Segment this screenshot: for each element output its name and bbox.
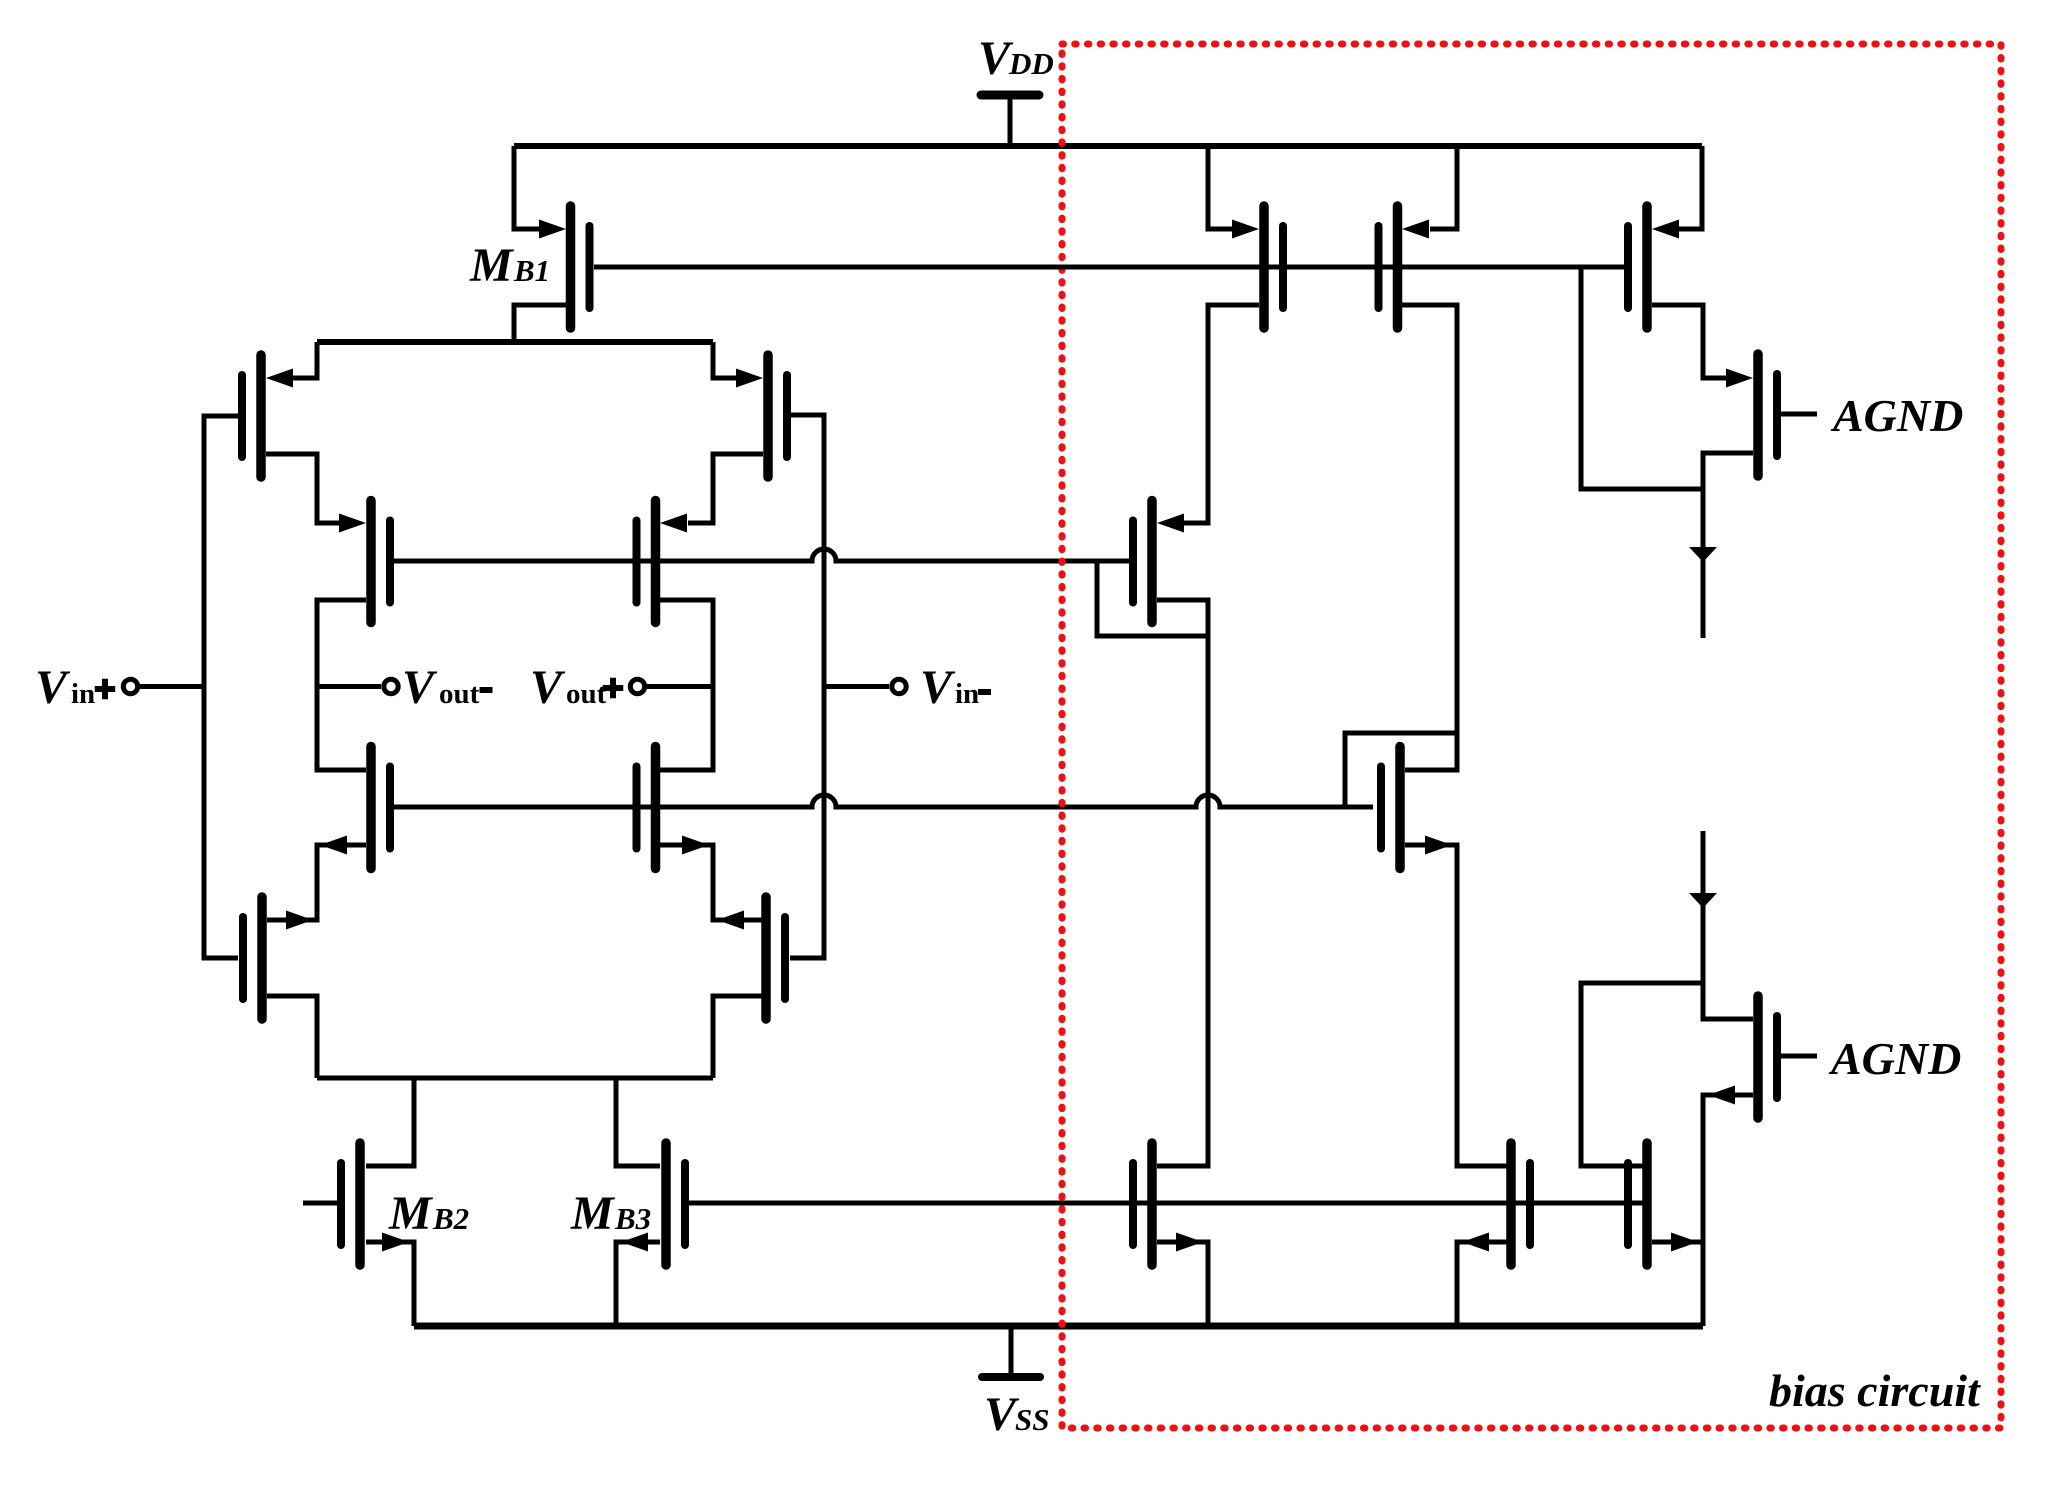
node Vout- terminal xyxy=(317,679,398,693)
node Vin+ terminal xyxy=(123,679,204,693)
wire cross link to BN4 drain xyxy=(1581,983,1703,1166)
wire BP2 drain from rail xyxy=(1430,146,1457,229)
wire M2 drain to M4 xyxy=(688,454,763,523)
Vin- label xyxy=(920,661,991,714)
wire BN2 source to VSS rail xyxy=(1157,1242,1208,1326)
transistor M2 (PMOS input, Vin-) xyxy=(736,355,787,477)
wire row3 gate line with hops xyxy=(394,795,1373,807)
wire AGP gate stub xyxy=(1781,412,1817,417)
transistor BP2 (bias PMOS mirror) xyxy=(1379,206,1430,328)
wire BN4 source to AGN column xyxy=(1652,1240,1703,1245)
svg-text:out: out xyxy=(439,678,480,710)
MB3 label xyxy=(570,1187,651,1240)
transistor M6 (NMOS cascode right) xyxy=(637,747,710,869)
svg-text:bias circuit: bias circuit xyxy=(1769,1365,1981,1416)
svg-text:DD: DD xyxy=(1008,46,1054,81)
transistor MB2 (NMOS tail source) xyxy=(341,1143,409,1265)
svg-text:SS: SS xyxy=(1015,1402,1049,1437)
svg-text:B3: B3 xyxy=(614,1201,651,1236)
wire M1 source drop from mid rail xyxy=(292,342,317,378)
Vout+ label xyxy=(530,661,623,714)
transistor BN2 (bias NMOS bottom left) xyxy=(1133,1143,1203,1265)
bias circuit boundary (red dotted box) xyxy=(1062,44,2001,1428)
svg-text:B2: B2 xyxy=(432,1201,469,1236)
wire M3 drain to Vout- node and M5 xyxy=(317,600,366,770)
svg-text:V: V xyxy=(530,661,566,714)
node Vin- terminal xyxy=(824,679,906,693)
wire BN3 source to VSS rail xyxy=(1457,1242,1507,1326)
wire AGN gate stub xyxy=(1781,1054,1817,1059)
svg-text:V: V xyxy=(35,661,71,714)
transistor M5 (NMOS cascode left) xyxy=(320,747,390,869)
wire MB2 gate stub xyxy=(303,1201,338,1206)
transistor BP1 (bias PMOS mirror) xyxy=(1232,206,1283,328)
svg-text:M: M xyxy=(469,239,515,292)
transistor M8 (NMOS input, Vin-) xyxy=(717,897,785,1019)
Vin+ label xyxy=(35,661,115,714)
wire M6 source to M8 drain xyxy=(660,845,763,920)
svg-text:in: in xyxy=(71,678,95,710)
wire mid rail (sources of M1/M2) xyxy=(317,339,713,345)
wire M1 drain to M3 xyxy=(266,454,341,523)
transistor BP3 (bias PMOS diode) xyxy=(1133,501,1184,623)
transistor M7 (NMOS input, Vin+) xyxy=(243,897,313,1019)
wire MB1 source to mid rail xyxy=(514,305,566,342)
svg-text:V: V xyxy=(920,661,956,714)
wire row2 gate to BP3 source hook xyxy=(1097,561,1208,636)
svg-text:out: out xyxy=(566,678,607,710)
transistor M3 (PMOS cascode left) xyxy=(339,501,390,623)
AGND label upper xyxy=(1830,390,1963,441)
svg-text:in: in xyxy=(955,678,979,710)
current source arrow lower xyxy=(1689,831,1753,1019)
wire M2 gate / Vin- gate line xyxy=(789,415,824,958)
wire Vin+ gate line xyxy=(204,416,240,958)
transistor AGP (AGND PMOS) xyxy=(1726,354,1777,476)
svg-text:V: V xyxy=(402,661,438,714)
wire MB2 source to VSS rail xyxy=(366,1242,414,1326)
wire row2 gate line with hop over Vin- line xyxy=(394,549,1129,561)
svg-text:AGND: AGND xyxy=(1828,1033,1961,1084)
transistor BN4 (bias NMOS bottom right) xyxy=(1628,1143,1698,1265)
wire BP1 source down to BP3 xyxy=(1184,305,1259,523)
wire bottom NMOS gate line xyxy=(687,1201,1645,1206)
transistor MB1 (PMOS current mirror master) xyxy=(539,206,590,328)
transistor BN1 (bias NMOS) xyxy=(1381,747,1452,869)
wire AGP source to bias node xyxy=(1703,453,1753,489)
transistor AGN (AGND NMOS) xyxy=(1708,996,1777,1118)
wire AGN source to VSS rail xyxy=(1703,1095,1753,1326)
wire BN1 source down to BN3 drain xyxy=(1405,845,1507,1166)
wire M8 source to tail bus xyxy=(713,996,763,1078)
svg-text:AGND: AGND xyxy=(1830,390,1963,441)
transistor BP4 (bias PMOS far right) xyxy=(1628,206,1679,328)
wire M4 drain to Vout+ node and M6 xyxy=(660,600,713,770)
VDD power symbol xyxy=(981,95,1039,146)
wire BP2 source down to BN1 drain xyxy=(1402,305,1457,770)
wire MB1 drain from VDD rail xyxy=(514,146,541,229)
wire VDD top rail xyxy=(514,143,1702,149)
wire M7 source to tail bus xyxy=(267,996,317,1078)
VSS label xyxy=(984,1388,1049,1441)
wire BP4 drain from rail corner xyxy=(1679,146,1702,229)
wire BP4 source to AGND PMOS drain xyxy=(1652,305,1729,378)
wire MB3 drain drop xyxy=(616,1078,660,1166)
wire VSS bottom rail xyxy=(414,1323,1703,1330)
svg-text:M: M xyxy=(388,1187,434,1240)
MB2 label xyxy=(388,1187,469,1240)
wire MB3 source to VSS rail xyxy=(616,1242,660,1326)
wire BP3 source down to BN2 drain (hop crossed by row3 line) xyxy=(1157,600,1208,1166)
current source arrow upper xyxy=(1689,489,1717,638)
wire tail bus xyxy=(317,1076,713,1081)
wire BN1 gate-drain loop xyxy=(1345,733,1457,807)
wire PMOS bias gate line xyxy=(594,265,1626,270)
wire MB2 drain drop xyxy=(366,1078,414,1166)
transistor M1 (PMOS input, Vin+) xyxy=(242,355,293,477)
bias circuit label xyxy=(1769,1365,1981,1416)
Vout- label xyxy=(402,661,493,714)
wire bias gate tie-down xyxy=(1581,267,1703,489)
wire M2 source drop from mid rail xyxy=(713,342,737,378)
svg-text:B1: B1 xyxy=(513,253,550,288)
wire M5 source to M7 drain xyxy=(267,845,366,920)
VSS power symbol xyxy=(982,1326,1040,1377)
transistor MB3 (NMOS tail source) xyxy=(621,1143,685,1265)
svg-text:M: M xyxy=(570,1187,616,1240)
transistor M4 (PMOS cascode right) xyxy=(637,501,688,623)
transistor BN3 (bias NMOS bottom mid) xyxy=(1462,1143,1530,1265)
MB1 label xyxy=(469,239,550,292)
wire BP1 drain from rail xyxy=(1208,146,1234,229)
VDD label xyxy=(978,32,1054,85)
AGND label lower xyxy=(1828,1033,1961,1084)
node Vout+ terminal xyxy=(630,679,713,693)
